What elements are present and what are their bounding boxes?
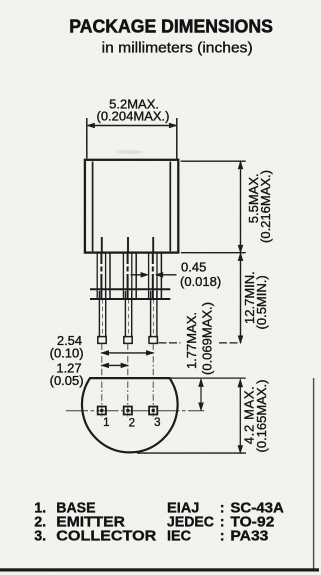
lead tip extension line to 12.7 dim	[159, 342, 241, 344]
lead 2 wide section	[123, 253, 136, 298]
svg-text:(0.5MIN.): (0.5MIN.)	[254, 275, 269, 329]
horizontal centerline of bottom view	[66, 410, 204, 412]
legend standards	[167, 501, 284, 545]
svg-text:3.: 3.	[34, 529, 46, 545]
page border right edge	[313, 378, 315, 570]
svg-text:1: 1	[103, 417, 109, 429]
lead shoulder lines	[90, 289, 170, 299]
package body outline	[85, 160, 178, 253]
dimension 5.5MAX / 12.7MIN lines	[181, 161, 246, 343]
svg-text:(0.204MAX.): (0.204MAX.)	[97, 108, 170, 123]
dimension 5.2MAX label	[97, 97, 170, 124]
lead 1 narrow section	[99, 291, 105, 338]
faint scan smudge above body	[117, 150, 143, 154]
lead 3 narrow section	[151, 291, 157, 338]
label 5.5MAX (0.216MAX.) rotated	[246, 170, 273, 243]
dimension 4.2MAX line	[137, 380, 246, 454]
dimension 1.27 line	[101, 363, 128, 368]
svg-text:2: 2	[129, 418, 135, 430]
pad labels 1 2 3	[103, 417, 160, 430]
svg-text:(0.05): (0.05)	[50, 373, 84, 388]
lead tip boxes	[98, 337, 158, 344]
svg-text:1.77MAX.: 1.77MAX.	[184, 312, 199, 369]
dimension 1.77MAX line	[171, 378, 246, 410]
page border bottom edge	[0, 568, 319, 571]
dimension 5.2MAX line with arrows	[87, 118, 177, 161]
svg-text:(0.069MAX.): (0.069MAX.)	[200, 302, 215, 375]
svg-text::: :	[220, 529, 225, 545]
bottom view outline (D shape)	[82, 378, 178, 452]
svg-text:in millimeters (inches): in millimeters (inches)	[102, 40, 253, 56]
vertical centerlines of leads	[102, 343, 153, 416]
lead 3 wide section	[149, 253, 162, 298]
pad 3 square	[149, 407, 157, 415]
svg-text:PA33: PA33	[230, 529, 268, 545]
title PACKAGE DIMENSIONS	[69, 16, 273, 57]
pad 2 square	[124, 407, 132, 415]
label 4.2 MAX (0.165MAX.) rotated	[242, 380, 269, 453]
svg-text:(0.165MAX.): (0.165MAX.)	[254, 380, 269, 453]
pad 1 square	[98, 407, 106, 415]
label 12.7MIN (0.5MIN.) rotated	[242, 271, 269, 329]
svg-text:IEC: IEC	[167, 529, 191, 545]
label 1.77MAX (0.069MAX.) rotated	[184, 302, 215, 375]
lead 1 wide section	[97, 253, 110, 298]
svg-text:0.45: 0.45	[181, 260, 206, 275]
svg-text:(0.216MAX.): (0.216MAX.)	[258, 170, 273, 243]
svg-text:3: 3	[154, 417, 160, 429]
svg-text:(0.10): (0.10)	[50, 345, 84, 360]
svg-text:COLLECTOR: COLLECTOR	[56, 529, 157, 545]
labels 2.54 (0.10) 1.27 (0.05)	[50, 333, 84, 388]
dimension 0.45 lead width	[131, 260, 222, 290]
svg-text:(0.018): (0.018)	[180, 274, 221, 289]
dimension 2.54 line	[101, 351, 153, 356]
svg-text:PACKAGE DIMENSIONS: PACKAGE DIMENSIONS	[69, 16, 273, 37]
lead 2 narrow section	[125, 291, 131, 338]
legend pin names	[34, 501, 157, 545]
